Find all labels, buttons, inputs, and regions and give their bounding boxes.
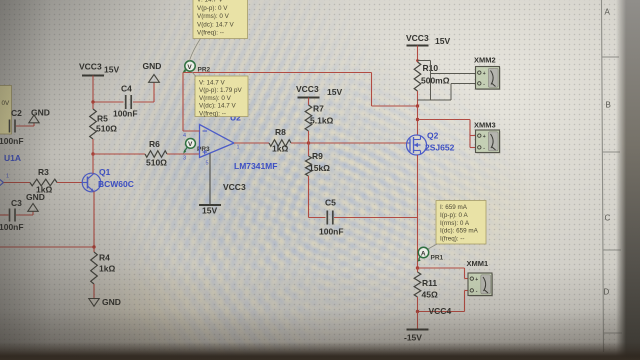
probe readout box PR2 (top, cut): [190, 0, 248, 61]
wire C4 row: [93, 83, 154, 103]
probe readout box PR-left (cut at edge): [0, 86, 12, 135]
transistor Q2 (P-MOSFET): [407, 131, 455, 156]
ground (C3): [26, 192, 45, 211]
resistor R9: [306, 143, 331, 218]
resistor R8: [269, 127, 291, 154]
wire R3 to Q1 base: [57, 182, 83, 184]
wire feedback jog down: [371, 73, 373, 107]
ground (C2): [29, 108, 50, 123]
probe PR1: [417, 247, 443, 261]
wire Q1 emitter down: [93, 192, 95, 248]
power VCC3 15V (middle): [296, 84, 342, 105]
capacitor C4: [113, 84, 138, 119]
probe PR2: [183, 61, 211, 74]
power VCC4 -15V: [404, 306, 451, 343]
wire node to Q2 gate: [309, 142, 409, 144]
wire C5 to drain column: [334, 217, 418, 219]
wire feedback horizontal: [183, 72, 372, 74]
resistor R6: [145, 139, 167, 168]
wire R8 to node: [291, 142, 309, 144]
probe readout box PR2 values: [192, 72, 249, 118]
wire inverting input: [183, 130, 200, 132]
probe readout box PR1 values: [428, 201, 486, 250]
wire R10 node to Q2 source: [417, 106, 419, 135]
node junction R7/R8/R9: [307, 141, 310, 144]
node junction VCC3/C4/R5: [91, 100, 94, 103]
node junction XMM3 tap: [416, 118, 419, 121]
wire feedback vertical: [182, 73, 184, 132]
capacitor C5: [319, 198, 344, 237]
node junction R5/R6/Q1: [91, 152, 94, 155]
sheet border column: [602, 0, 623, 352]
wire feedback to R10 node: [372, 105, 418, 107]
wire Q2 drain down: [417, 155, 419, 268]
op-amp negative supply stub: [199, 154, 221, 216]
op-amp U2: [200, 113, 242, 158]
capacitor C3: [0, 198, 33, 232]
node junction emitter/R4: [92, 245, 95, 248]
wire XMM2 sense top: [418, 61, 476, 101]
wire op-amp output: [234, 142, 269, 144]
wire to R6: [93, 153, 145, 155]
resistor R10: [414, 62, 450, 106]
resistor R3: [30, 167, 57, 195]
wire XMM2 sense bottom: [418, 84, 476, 101]
resistor R11: [414, 268, 438, 312]
resistor R7: [305, 104, 333, 144]
wire to XMM1 +: [418, 268, 469, 279]
multimeter XMM3: [474, 121, 501, 154]
wire R6 to op-amp + input: [167, 153, 200, 155]
ground (right of C4): [143, 61, 162, 82]
resistor R4: [91, 247, 116, 299]
multimeter XMM2: [474, 56, 501, 91]
wire from XMM1 -: [418, 291, 469, 312]
node junction R10 top / XMM2: [416, 59, 419, 62]
resistor R5: [90, 102, 117, 154]
node junction R11 bottom: [416, 310, 419, 313]
op-amp U1A (partial at left edge): [0, 153, 21, 196]
wire Q1 collector: [92, 154, 94, 174]
node junction R10 bottom / feedback: [416, 104, 419, 107]
wire U1A output to R3: [4, 182, 31, 184]
wire to XMM3: [418, 120, 476, 148]
capacitor C2: [0, 108, 34, 146]
power VCC3 15V (top-left): [79, 62, 119, 103]
power VCC3 15V (top-right): [406, 33, 450, 62]
wire R9 to C5: [309, 217, 326, 219]
probe PR3: [183, 139, 210, 154]
node junction R11 top: [416, 266, 419, 269]
ground (R4): [89, 297, 121, 307]
multimeter XMM1: [467, 259, 494, 297]
wire from left edge to R4 node: [0, 246, 94, 248]
transistor Q1: [82, 167, 134, 192]
